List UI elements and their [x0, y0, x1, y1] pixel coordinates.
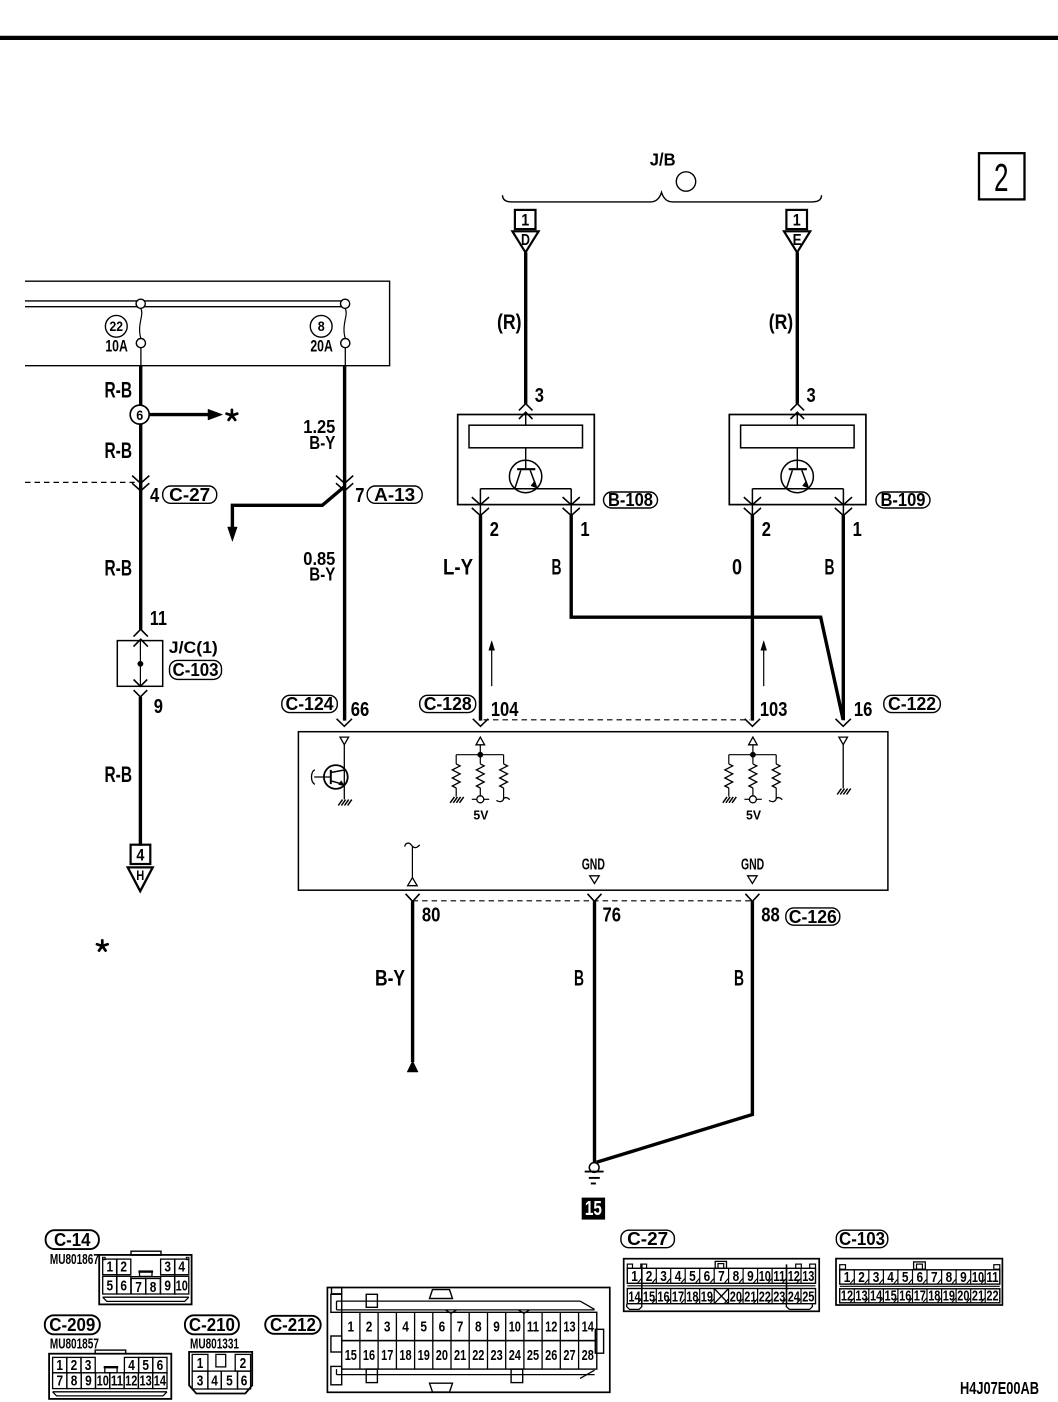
svg-text:H4J07E00AB: H4J07E00AB — [960, 1378, 1039, 1398]
connector C-27 pinout — [624, 1259, 820, 1312]
svg-text:20: 20 — [436, 1347, 448, 1364]
svg-text:6: 6 — [136, 408, 143, 423]
svg-text:3: 3 — [197, 1372, 204, 1389]
svg-text:11: 11 — [773, 1268, 785, 1285]
branch wire to arrow down — [232, 487, 344, 529]
svg-text:GND: GND — [741, 857, 764, 874]
svg-text:7: 7 — [355, 485, 364, 507]
svg-text:11: 11 — [150, 608, 167, 630]
svg-text:R-B: R-B — [105, 556, 133, 581]
svg-text:11: 11 — [986, 1269, 998, 1286]
svg-text:88: 88 — [761, 905, 780, 927]
svg-text:28: 28 — [582, 1347, 594, 1364]
fuse 8 designator circle — [310, 315, 332, 337]
sensor B-109 inner element — [741, 425, 855, 448]
ECU 5V resistor network at pin 104 — [450, 737, 510, 822]
svg-text:MU801867: MU801867 — [50, 1252, 99, 1268]
svg-text:103: 103 — [760, 699, 788, 721]
svg-text:8: 8 — [475, 1319, 482, 1336]
svg-text:10: 10 — [759, 1268, 771, 1285]
connector chevron at ECU pin 76 — [588, 894, 602, 902]
label C-212 — [265, 1316, 321, 1334]
svg-text:10A: 10A — [105, 338, 128, 356]
svg-text:17: 17 — [914, 1288, 926, 1305]
svg-text:B: B — [574, 966, 584, 991]
B-109 internal rail wire — [752, 488, 843, 490]
svg-text:C-209: C-209 — [49, 1314, 95, 1335]
svg-text:C-14: C-14 — [54, 1229, 91, 1250]
J/B circle symbol — [676, 172, 695, 191]
svg-text:R-B: R-B — [105, 762, 133, 787]
svg-text:22: 22 — [986, 1288, 998, 1305]
svg-text:20A: 20A — [310, 338, 333, 356]
connector D triangle — [512, 231, 538, 252]
svg-text:4: 4 — [402, 1319, 409, 1336]
svg-text:18: 18 — [928, 1288, 940, 1305]
svg-text:C-103: C-103 — [173, 659, 219, 680]
svg-text:17: 17 — [672, 1288, 684, 1305]
connector chevrons at A-13 pin 7 — [336, 476, 353, 484]
svg-text:23: 23 — [491, 1347, 503, 1364]
node circle 6 — [130, 405, 149, 424]
ECU pin 16 ground path — [839, 737, 848, 745]
wire R-B from fuse 22 down — [139, 366, 142, 630]
svg-text:2: 2 — [240, 1355, 247, 1372]
svg-text:C-122: C-122 — [888, 693, 936, 714]
svg-text:6: 6 — [704, 1268, 711, 1285]
page number 2 box — [979, 153, 1025, 200]
wire B from B-109 pin 1 to ECU pin 16 — [842, 515, 845, 720]
label A-13 — [367, 486, 422, 503]
label C-209 — [45, 1315, 100, 1334]
svg-text:B-Y: B-Y — [375, 966, 405, 991]
svg-text:H: H — [136, 868, 144, 883]
asterisk note 2 — [101, 940, 104, 946]
svg-text:R-B: R-B — [105, 438, 133, 463]
svg-text:7: 7 — [57, 1373, 64, 1390]
label C-27 — [163, 486, 217, 503]
ground ref box 4 — [131, 845, 151, 865]
svg-text:11: 11 — [111, 1373, 123, 1390]
svg-text:3: 3 — [660, 1268, 667, 1285]
svg-text:13: 13 — [140, 1373, 152, 1390]
svg-text:1: 1 — [853, 519, 862, 541]
svg-text:2: 2 — [366, 1319, 373, 1336]
svg-text:1: 1 — [844, 1269, 851, 1286]
svg-text:6: 6 — [120, 1277, 127, 1294]
connector C-210 pinout — [189, 1352, 252, 1394]
svg-text:19: 19 — [701, 1288, 713, 1305]
connector chevrons at J/C bottom — [134, 680, 148, 687]
svg-text:22: 22 — [759, 1288, 771, 1305]
svg-text:C-210: C-210 — [189, 1314, 235, 1335]
svg-text:104: 104 — [491, 699, 519, 721]
label C-14 — [46, 1230, 99, 1249]
connector C-103 pinout — [836, 1259, 1002, 1305]
svg-text:E: E — [793, 232, 802, 249]
connector chevrons at C-27 pin 4 — [132, 476, 149, 484]
fuse 22 designator circle — [105, 315, 127, 337]
svg-text:MU801331: MU801331 — [190, 1336, 239, 1352]
svg-text:5: 5 — [902, 1269, 909, 1286]
svg-text:(R): (R) — [769, 311, 794, 334]
svg-text:9: 9 — [85, 1373, 92, 1390]
svg-text:12: 12 — [788, 1268, 800, 1285]
connector chevrons at B-108 pin 2 — [472, 497, 489, 505]
svg-text:4: 4 — [128, 1357, 135, 1374]
svg-text:7: 7 — [135, 1279, 142, 1296]
svg-text:C-27: C-27 — [627, 1228, 668, 1249]
ECU box — [298, 732, 888, 891]
svg-text:3: 3 — [85, 1357, 92, 1374]
svg-text:14: 14 — [154, 1373, 167, 1390]
svg-text:6: 6 — [917, 1269, 924, 1286]
svg-text:D: D — [521, 232, 530, 249]
svg-text:24: 24 — [788, 1288, 801, 1305]
dashed connector line C-126 — [413, 900, 753, 902]
svg-text:2: 2 — [762, 519, 771, 541]
connector chevron at ECU pin 16 — [836, 719, 851, 727]
svg-text:22: 22 — [110, 319, 124, 334]
svg-text:R-B: R-B — [105, 377, 133, 402]
svg-text:1: 1 — [631, 1268, 638, 1285]
asterisk note 1 — [231, 410, 234, 416]
svg-text:23: 23 — [773, 1288, 785, 1305]
J/B label — [650, 150, 676, 170]
svg-text:22: 22 — [472, 1347, 484, 1364]
connector chevrons at B-108 pin 1 — [563, 497, 580, 505]
svg-text:2: 2 — [490, 519, 499, 541]
svg-text:8: 8 — [946, 1269, 953, 1286]
label C-27 bottom — [621, 1230, 675, 1248]
wire B from pin 88 to ground 15 — [597, 901, 753, 1162]
signal direction arrow at pin 104 — [491, 648, 493, 687]
svg-text:1: 1 — [107, 1259, 114, 1276]
svg-text:15: 15 — [345, 1347, 357, 1364]
svg-text:5: 5 — [107, 1277, 114, 1294]
svg-text:B: B — [825, 555, 835, 580]
connector C-14 pinout — [99, 1251, 191, 1304]
label B-109 — [876, 492, 930, 508]
branch arrow to * — [149, 413, 208, 416]
wire B-Y from fuse 8 to ECU pin 66 — [343, 366, 346, 721]
svg-text:10: 10 — [972, 1269, 984, 1286]
svg-text:C-103: C-103 — [839, 1228, 885, 1249]
svg-text:18: 18 — [399, 1347, 411, 1364]
ECU output switch symbol at pin 80 — [405, 843, 420, 847]
svg-text:2: 2 — [994, 157, 1009, 200]
connector chevrons at J/C top — [134, 629, 148, 636]
svg-text:16: 16 — [657, 1288, 669, 1305]
svg-text:A-13: A-13 — [374, 484, 415, 505]
svg-text:5: 5 — [142, 1357, 149, 1374]
connector chevron at ECU pin 103 — [745, 719, 760, 727]
wire B from pin 76 to ground 15 — [593, 901, 596, 1163]
wire 0 from B-109 pin 2 to ECU pin 103 — [751, 515, 754, 720]
label C-128 — [420, 695, 476, 712]
svg-text:MU801857: MU801857 — [50, 1336, 99, 1352]
svg-text:6: 6 — [157, 1357, 164, 1374]
svg-text:76: 76 — [603, 905, 622, 927]
svg-text:12: 12 — [545, 1319, 557, 1336]
svg-text:4: 4 — [178, 1259, 185, 1276]
svg-text:3: 3 — [384, 1319, 391, 1336]
svg-text:16: 16 — [899, 1288, 911, 1305]
svg-text:5V: 5V — [746, 808, 761, 823]
svg-text:2: 2 — [858, 1269, 865, 1286]
svg-text:4: 4 — [136, 846, 145, 864]
dashed separator line left — [25, 481, 135, 483]
ground 15 symbol — [589, 1163, 599, 1173]
svg-text:13: 13 — [802, 1268, 814, 1285]
page top rule — [0, 36, 1058, 40]
svg-text:GND: GND — [582, 857, 605, 874]
signal direction arrow at pin 103 — [763, 648, 765, 687]
wire (R) from J/B E to B-109 pin 3 — [796, 252, 799, 403]
fuse stub wires — [140, 348, 142, 366]
sensor B-108 inner element — [469, 425, 583, 448]
svg-text:66: 66 — [351, 699, 370, 721]
svg-text:10: 10 — [97, 1373, 109, 1390]
svg-text:18: 18 — [686, 1288, 698, 1305]
connector C-209 pinout — [49, 1350, 171, 1399]
svg-text:27: 27 — [563, 1347, 575, 1364]
transistor inside B-109 — [781, 448, 813, 493]
svg-text:13: 13 — [563, 1319, 575, 1336]
svg-text:4: 4 — [150, 485, 160, 507]
connector D pin 1 box — [515, 210, 536, 230]
svg-text:12: 12 — [841, 1288, 853, 1305]
svg-text:B: B — [552, 555, 562, 580]
svg-text:25: 25 — [802, 1288, 814, 1305]
svg-text:C-128: C-128 — [424, 693, 472, 714]
svg-text:0: 0 — [732, 555, 742, 580]
connector E pin 1 box — [786, 210, 807, 230]
B-108 internal rail wire — [480, 488, 571, 490]
svg-text:4: 4 — [211, 1372, 218, 1389]
connector E triangle — [784, 231, 810, 252]
svg-text:3: 3 — [535, 385, 544, 407]
svg-text:L-Y: L-Y — [443, 555, 473, 580]
svg-text:5: 5 — [226, 1372, 233, 1389]
fuse 8 element — [341, 299, 350, 308]
ECU transistor ground — [338, 800, 342, 806]
wire B-Y from pin 80 to terminator — [411, 901, 414, 1062]
connector chevrons at B-109 pin 2 — [744, 497, 761, 505]
svg-text:26: 26 — [545, 1347, 557, 1364]
svg-text:B: B — [734, 966, 744, 991]
ECU GND triangle left — [590, 876, 600, 884]
svg-text:9: 9 — [493, 1319, 500, 1336]
ECU GND triangle right — [748, 876, 758, 884]
svg-text:13: 13 — [855, 1288, 867, 1305]
J/B bracket brace — [503, 192, 822, 202]
label C-103 at J/C — [170, 660, 222, 679]
svg-text:14: 14 — [628, 1288, 641, 1305]
svg-text:B-Y: B-Y — [309, 432, 335, 453]
dashed connector line C-128 to C-122 — [484, 719, 751, 721]
ECU internal transistor — [312, 745, 348, 800]
svg-text:3: 3 — [807, 385, 816, 407]
svg-text:6: 6 — [439, 1319, 446, 1336]
svg-text:24: 24 — [509, 1347, 522, 1364]
svg-text:15: 15 — [885, 1288, 897, 1305]
svg-text:11: 11 — [527, 1319, 539, 1336]
svg-text:5V: 5V — [473, 808, 488, 823]
svg-text:19: 19 — [943, 1288, 955, 1305]
svg-text:21: 21 — [744, 1288, 756, 1305]
connector chevrons at B-108 pin 3 — [519, 404, 533, 411]
ground triangle H — [128, 867, 153, 891]
svg-text:B-108: B-108 — [608, 489, 653, 510]
svg-text:15: 15 — [585, 1198, 602, 1220]
svg-text:20: 20 — [730, 1288, 742, 1305]
svg-text:8: 8 — [318, 319, 325, 334]
svg-text:5: 5 — [420, 1319, 427, 1336]
wire B from B-108 pin 1 to ECU pin 16 — [571, 515, 843, 719]
label B-108 — [604, 492, 658, 508]
wire 80 end terminator arrow — [407, 1061, 418, 1072]
label C-210 — [185, 1315, 239, 1334]
svg-text:2: 2 — [71, 1357, 78, 1374]
svg-text:16: 16 — [854, 699, 873, 721]
connector chevron at ECU pin 88 — [745, 894, 759, 902]
connector C-212 pinout — [327, 1288, 609, 1393]
svg-text:8: 8 — [733, 1268, 740, 1285]
svg-text:2: 2 — [120, 1259, 127, 1276]
svg-text:20: 20 — [957, 1288, 969, 1305]
svg-text:21: 21 — [972, 1288, 984, 1305]
sensor B-109 box — [729, 415, 866, 505]
svg-text:1: 1 — [197, 1355, 204, 1372]
svg-text:14: 14 — [870, 1288, 883, 1305]
svg-text:6: 6 — [241, 1372, 248, 1389]
svg-text:1: 1 — [348, 1319, 355, 1336]
svg-text:80: 80 — [422, 905, 441, 927]
svg-text:17: 17 — [381, 1347, 393, 1364]
svg-text:1: 1 — [580, 519, 589, 541]
svg-text:3: 3 — [164, 1259, 171, 1276]
fuse 22 element — [136, 299, 145, 308]
svg-text:8: 8 — [71, 1373, 78, 1390]
connector chevrons at B-109 pin 1 — [835, 497, 852, 505]
svg-text:B-109: B-109 — [881, 489, 926, 510]
svg-text:19: 19 — [418, 1347, 430, 1364]
connector chevron at ECU pin 66 — [337, 719, 352, 727]
svg-text:4: 4 — [887, 1269, 894, 1286]
sensor B-108 box — [458, 415, 595, 505]
label C-126 — [786, 908, 840, 925]
svg-text:9: 9 — [960, 1269, 967, 1286]
label C-124 — [282, 695, 338, 712]
label C-103 bottom — [836, 1230, 888, 1248]
svg-text:7: 7 — [718, 1268, 725, 1285]
svg-text:7: 7 — [457, 1319, 464, 1336]
svg-text:J/C(1): J/C(1) — [169, 638, 218, 657]
svg-text:7: 7 — [931, 1269, 938, 1286]
wire L-Y from B-108 pin 2 to ECU pin 104 — [479, 515, 482, 720]
svg-text:15: 15 — [643, 1288, 655, 1305]
bus wire double line — [25, 300, 345, 302]
svg-text:9: 9 — [154, 696, 163, 718]
svg-text:3: 3 — [873, 1269, 880, 1286]
svg-text:1: 1 — [521, 211, 529, 230]
svg-text:(R): (R) — [497, 311, 522, 334]
svg-text:2: 2 — [646, 1268, 653, 1285]
svg-text:8: 8 — [150, 1279, 157, 1296]
svg-text:10: 10 — [176, 1277, 188, 1294]
wire (R) from J/B D to B-108 pin 3 — [524, 252, 527, 403]
connector chevrons at B-109 pin 3 — [791, 404, 805, 411]
ECU 5V resistor network at pin 103 — [723, 737, 783, 822]
svg-text:J/B: J/B — [650, 150, 676, 170]
svg-text:C-126: C-126 — [789, 906, 837, 927]
svg-text:C-27: C-27 — [169, 484, 210, 505]
svg-text:1: 1 — [56, 1357, 63, 1374]
svg-text:5: 5 — [689, 1268, 696, 1285]
svg-text:12: 12 — [125, 1373, 137, 1390]
svg-text:B-Y: B-Y — [309, 563, 335, 584]
svg-text:25: 25 — [527, 1347, 539, 1364]
fusible link box outline — [25, 281, 390, 366]
svg-text:10: 10 — [509, 1319, 521, 1336]
label C-122 — [884, 695, 941, 712]
svg-text:4: 4 — [675, 1268, 682, 1285]
svg-text:1: 1 — [793, 211, 801, 230]
junction J/C(1) box — [117, 641, 162, 687]
connector chevron at ECU pin 80 — [406, 894, 420, 902]
wire R-B to ground H — [139, 697, 142, 846]
svg-text:21: 21 — [454, 1347, 466, 1364]
ECU pin 66 input triangle — [340, 737, 349, 745]
svg-text:14: 14 — [582, 1319, 595, 1336]
svg-text:C-212: C-212 — [270, 1314, 316, 1335]
svg-text:9: 9 — [747, 1268, 754, 1285]
svg-text:9: 9 — [164, 1277, 171, 1294]
ground ref 15 black box — [582, 1198, 605, 1220]
svg-text:16: 16 — [363, 1347, 375, 1364]
connector chevron at ECU pin 104 — [473, 719, 488, 727]
transistor inside B-108 — [509, 448, 541, 493]
svg-text:C-124: C-124 — [286, 693, 335, 714]
